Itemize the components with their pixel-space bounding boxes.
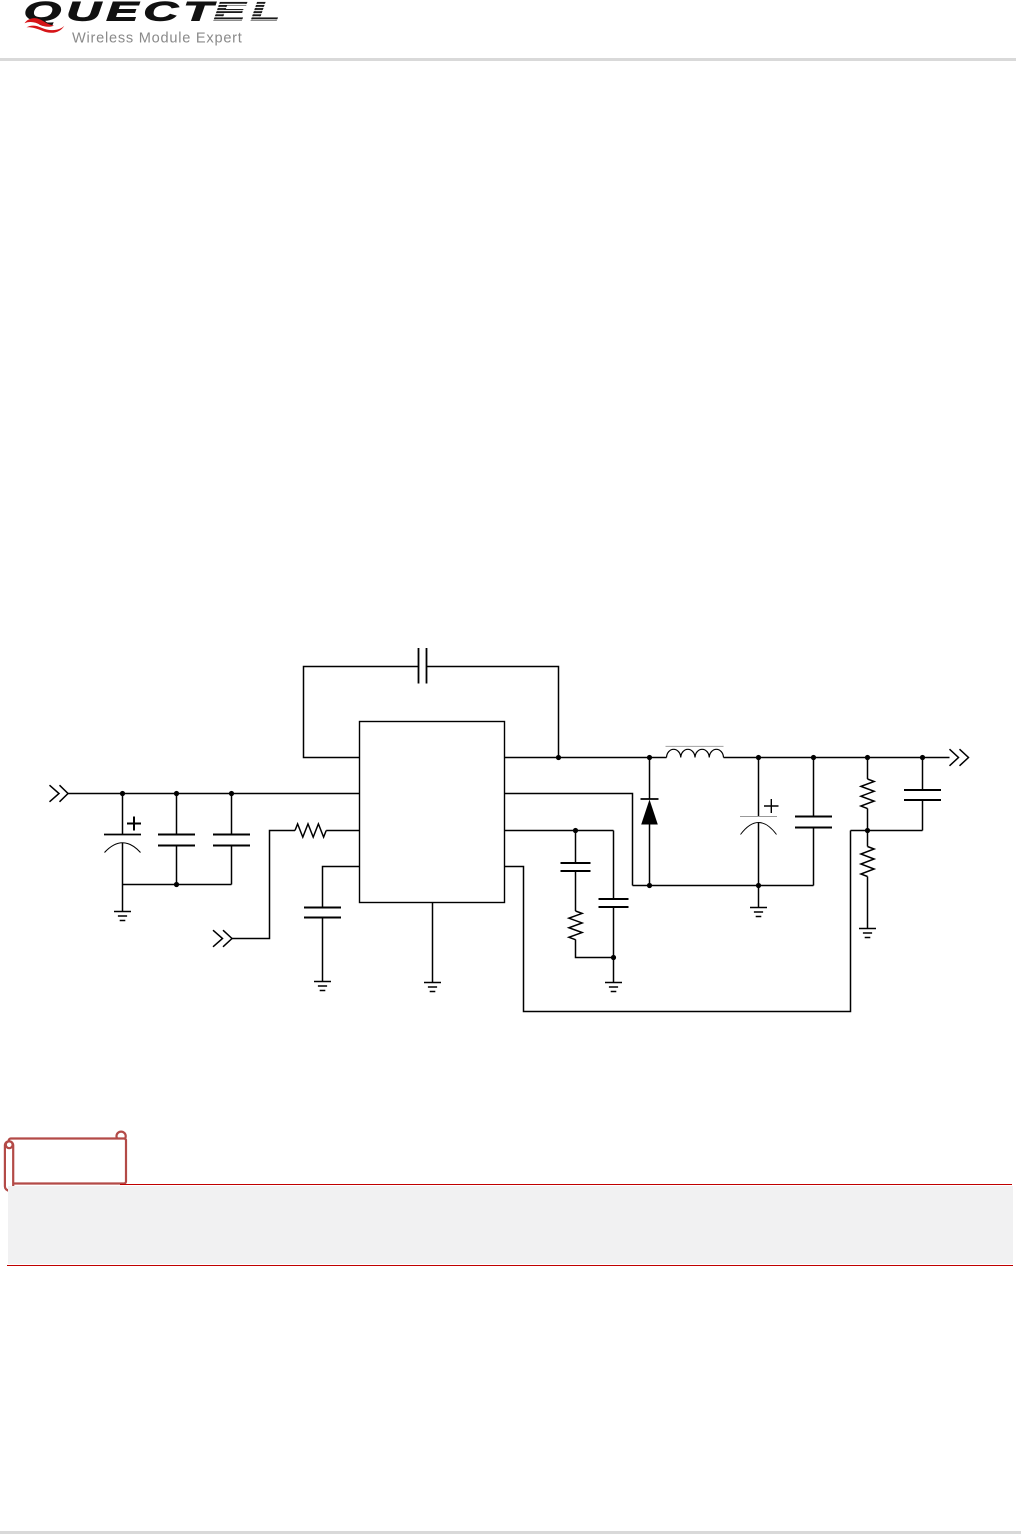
resistor R2 (feedback bottom): [861, 831, 874, 929]
wire BS loop left: [304, 667, 419, 758]
header rule: [0, 58, 1016, 61]
Quectel logo: [0, 0, 320, 70]
scroll body: [9, 1139, 126, 1184]
wire input rail: [68, 793, 360, 795]
wire U1 pin to D1 anode: [505, 794, 633, 886]
capacitor C8 (output electrolytic): [740, 758, 779, 886]
node SW-BS: [556, 755, 561, 760]
capacitor C4 (soft-start): [304, 908, 341, 982]
node input-C1: [120, 791, 125, 796]
capacitor C3: [213, 794, 250, 885]
resistor R3 (enable): [295, 824, 326, 837]
scroll left curl: [6, 1141, 13, 1148]
wire BS loop right: [427, 667, 559, 758]
note scroll shape: [0, 1120, 140, 1200]
node input-C2: [174, 791, 179, 796]
resistor R4 (comp): [569, 911, 614, 958]
node out-Cout: [756, 755, 761, 760]
logo word QUECTEL: [24, 0, 285, 27]
connector J3 (output, >>): [950, 749, 969, 766]
ground (input caps): [114, 885, 131, 921]
wire output rail: [724, 757, 950, 759]
connector J2 (enable, >>): [213, 930, 232, 947]
capacitor C10 (comp parallel): [599, 831, 629, 958]
diode D1: [641, 758, 659, 886]
ground (output): [750, 886, 767, 917]
wire enable: [232, 831, 295, 939]
connector J1 (input, >>): [50, 785, 69, 802]
wire COMP pin: [505, 830, 614, 832]
ground (U1): [424, 983, 441, 992]
footer rule: [0, 1531, 1021, 1534]
node out-R1: [865, 755, 870, 760]
node out-C6: [811, 755, 816, 760]
node SW-D1: [647, 755, 652, 760]
wire output bottom rail: [633, 885, 814, 887]
inductor L1: [666, 746, 724, 757]
wire SW rail: [505, 757, 667, 759]
resistor R1 (feedback top): [861, 758, 874, 831]
node FB-divider: [865, 828, 870, 833]
logo red swoosh: [25, 18, 55, 27]
capacitor C2: [158, 794, 195, 885]
capacitor C7 (feed-forward): [904, 758, 941, 831]
grey note band: [8, 1186, 1013, 1264]
scroll left roll: [5, 1141, 13, 1190]
capacitor C6 (output ceramic): [795, 758, 832, 886]
node out-C7: [920, 755, 925, 760]
node input-C3: [229, 791, 234, 796]
wire feedback return: [505, 831, 851, 1012]
node Cout-bottom: [756, 883, 761, 888]
capacitor C1 (input electrolytic): [104, 794, 141, 885]
wire U1 ground pin: [432, 903, 434, 983]
ground (R2): [859, 929, 876, 938]
capacitor C5 (bootstrap): [419, 648, 427, 684]
capacitor C9 (comp series): [561, 831, 591, 912]
wire SS pin: [323, 867, 360, 908]
node D1-bottom: [647, 883, 652, 888]
op-amp U1 (regulator IC): [360, 722, 505, 903]
ground (comp): [605, 958, 622, 992]
top red rule: [120, 1184, 1012, 1185]
node bottom-rail: [174, 882, 179, 887]
bottom red rule: [7, 1265, 1013, 1266]
scroll top-right curl: [117, 1132, 126, 1141]
wire C7 to divider: [851, 830, 923, 832]
wire R3 to U1: [326, 830, 359, 832]
ground (C4): [314, 982, 331, 991]
node COMP: [573, 828, 578, 833]
node comp-bottom: [611, 955, 616, 960]
wire input bottom rail: [123, 884, 232, 886]
